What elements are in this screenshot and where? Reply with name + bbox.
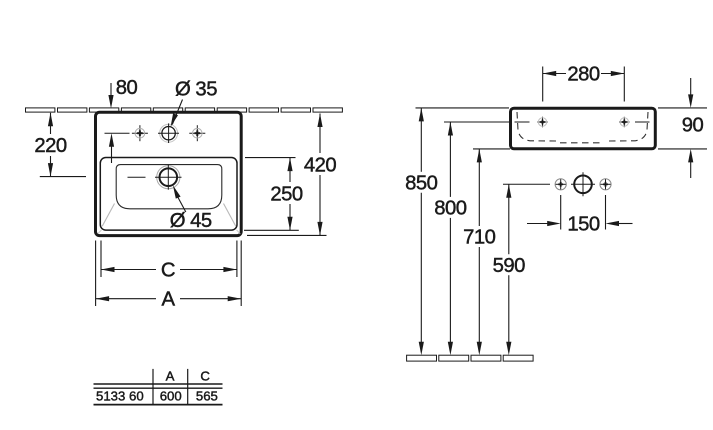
svg-text:220: 220 — [34, 135, 67, 157]
svg-text:A: A — [166, 368, 175, 383]
svg-text:590: 590 — [493, 255, 526, 277]
svg-text:Ø 35: Ø 35 — [175, 78, 217, 100]
svg-text:150: 150 — [567, 214, 600, 236]
svg-text:C: C — [200, 368, 210, 383]
svg-text:80: 80 — [116, 77, 138, 99]
svg-text:710: 710 — [463, 227, 496, 249]
svg-text:565: 565 — [196, 389, 218, 404]
svg-text:420: 420 — [304, 154, 337, 176]
svg-text:250: 250 — [270, 183, 303, 205]
svg-text:800: 800 — [434, 198, 467, 220]
svg-text:C: C — [161, 259, 175, 281]
svg-text:600: 600 — [160, 389, 182, 404]
svg-text:5133 60: 5133 60 — [96, 389, 144, 404]
svg-text:Ø 45: Ø 45 — [170, 210, 212, 232]
svg-text:A: A — [161, 289, 175, 311]
svg-text:280: 280 — [567, 63, 600, 85]
svg-text:850: 850 — [405, 173, 438, 195]
svg-text:90: 90 — [682, 114, 704, 136]
